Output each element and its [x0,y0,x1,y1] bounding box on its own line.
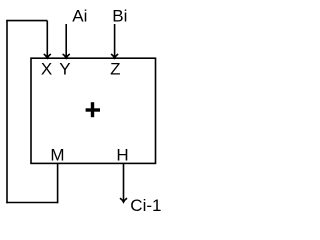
wire: X input vertical (from feedback) [46,21,48,58]
wire: Ai input vertical [65,24,67,58]
svg-text:X: X [41,60,52,79]
arrowhead into X [44,54,51,58]
svg-text:H: H [116,145,128,164]
wire: feedback top horizontal [6,20,47,22]
svg-text:Ci-1: Ci-1 [130,196,161,215]
svg-text:Y: Y [59,60,70,79]
svg-text:Bi: Bi [112,6,127,25]
wire: M output vertical [57,163,59,203]
adder block U1 (box) [31,58,156,163]
plus symbol (adder) [86,102,100,117]
arrowhead into Z [111,54,118,58]
arrowhead into Y [63,54,70,58]
arrowhead to Ci-1 [120,198,127,202]
wire: Bi input vertical [114,24,116,58]
svg-text:Ai: Ai [72,6,87,25]
svg-text:M: M [50,145,64,164]
wire: feedback left vertical [6,20,8,203]
wire: Ci-1 output vertical [123,163,125,201]
wire: feedback bottom horizontal [6,202,58,204]
svg-text:Z: Z [110,60,120,79]
